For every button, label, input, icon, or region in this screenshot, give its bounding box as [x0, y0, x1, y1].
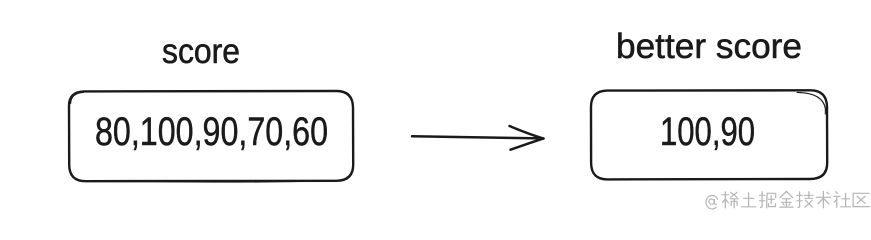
- watermark glyph: 社: [834, 192, 851, 208]
- watermark glyph: 金: [780, 191, 793, 207]
- svg-text:100,90: 100,90: [660, 110, 755, 154]
- arrow: score to better score: [412, 126, 544, 150]
- watermark glyph: 土: [741, 193, 755, 207]
- watermark glyph: @: [706, 195, 718, 209]
- svg-text:better score: better score: [616, 26, 802, 66]
- box: score list (double-stroke corner): [71, 93, 84, 104]
- watermark glyph: 技: [797, 192, 813, 208]
- watermark glyph: 掘: [759, 192, 775, 208]
- watermark glyph: 稀: [722, 192, 738, 208]
- box: score list (double-stroke bottom edge): [92, 181, 332, 182]
- box: better score (double-stroke corner): [797, 92, 825, 114]
- svg-text:score: score: [162, 32, 240, 71]
- watermark: @稀土掘金技术社区 (drawn as vector strokes): [706, 191, 869, 209]
- watermark glyph: 术: [816, 191, 830, 208]
- svg-text:80,100,90,70,60: 80,100,90,70,60: [95, 110, 328, 154]
- watermark glyph: 区: [853, 193, 869, 206]
- box: score list: [69, 91, 353, 181]
- box: better score: [591, 90, 827, 179]
